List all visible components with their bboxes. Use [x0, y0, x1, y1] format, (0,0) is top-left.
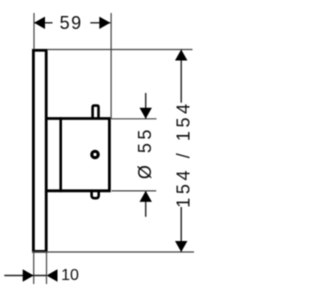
top stop nub — [93, 106, 99, 118]
valve body outline — [46, 119, 109, 191]
dim 154/154: bottom extension line — [32, 251, 194, 253]
dim 10: dimension line — [4, 275, 46, 277]
svg-text:154 / 154: 154 / 154 — [174, 100, 194, 207]
dim 154/154: dimension line lower segment — [180, 207, 182, 252]
dim 154/154: down arrowhead — [175, 241, 187, 252]
dim 59: left arrowhead — [34, 17, 45, 29]
dim 59: dimension line left segment — [34, 22, 53, 24]
svg-text:Ø 55: Ø 55 — [135, 126, 155, 179]
dim 10: left-pointing arrowhead — [47, 269, 58, 281]
dim 59: dimension line right segment — [90, 22, 110, 24]
dim 59: right extension line — [110, 13, 112, 119]
dim Ø55: lower tail line — [145, 191, 147, 217]
dim 154/154: up arrowhead — [175, 50, 187, 61]
wall plate (escutcheon, side view) — [33, 50, 46, 251]
dim Ø55: down arrowhead — [140, 108, 152, 119]
dim Ø55: up arrowhead — [140, 191, 152, 202]
dim 59: left extension line — [33, 13, 35, 49]
valve body inner sleeve line — [59, 117, 62, 192]
dim 10: left extension line — [33, 253, 35, 284]
svg-text:10: 10 — [61, 267, 79, 284]
dim 10: right-pointing arrowhead — [23, 269, 34, 281]
screw hole circle — [92, 151, 98, 157]
dim Ø55: upper tail line — [145, 93, 147, 119]
svg-text:59: 59 — [60, 13, 83, 33]
dim 154/154: dimension line upper segment — [180, 50, 182, 103]
dim Ø55: bottom extension line — [112, 190, 157, 192]
dim 154/154: top extension line — [48, 49, 193, 51]
dim 10: right extension line — [46, 253, 48, 284]
bottom stop nub — [92, 192, 99, 198]
dim 59: right arrowhead — [99, 17, 110, 29]
dim Ø55: top extension line — [111, 118, 157, 120]
